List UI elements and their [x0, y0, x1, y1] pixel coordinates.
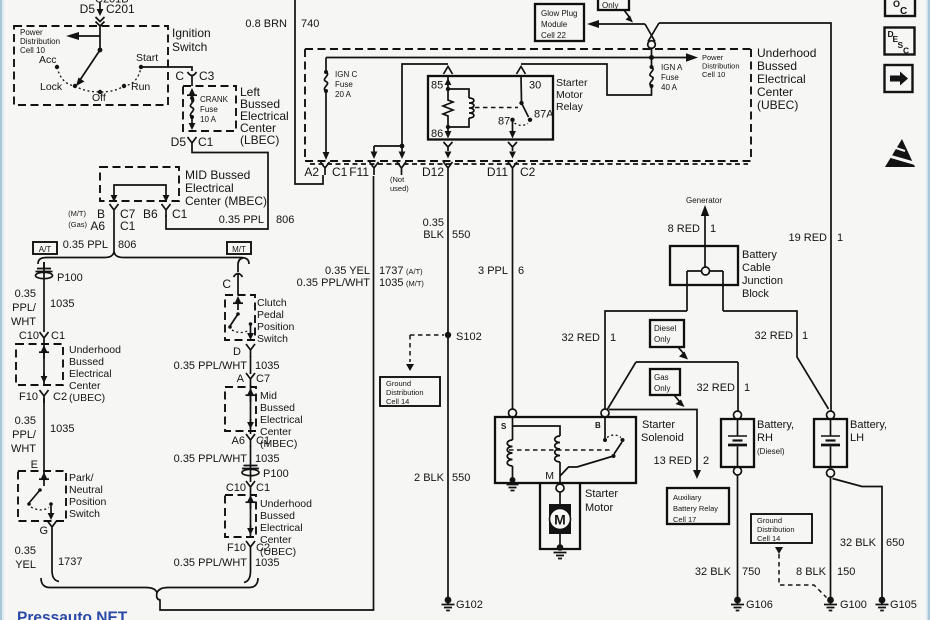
svg-text:0.35 PPL/WHT: 0.35 PPL/WHT [174, 360, 248, 372]
svg-text:Ignition: Ignition [172, 26, 211, 40]
svg-text:P100: P100 [263, 468, 289, 480]
svg-text:13 RED: 13 RED [653, 455, 692, 467]
svg-text:0.35 PPL: 0.35 PPL [219, 214, 264, 226]
svg-text:32 RED: 32 RED [696, 382, 735, 394]
svg-text:1035: 1035 [379, 277, 403, 289]
svg-text:O: O [893, 0, 900, 9]
svg-text:Pressauto NET: Pressauto NET [17, 610, 128, 620]
svg-text:0.35: 0.35 [15, 545, 36, 557]
svg-text:Battery Relay: Battery Relay [673, 504, 718, 513]
svg-text:A6: A6 [90, 219, 105, 233]
svg-text:M: M [545, 470, 554, 482]
svg-text:Starter: Starter [585, 488, 618, 500]
svg-text:S102: S102 [456, 331, 482, 343]
svg-text:1035: 1035 [255, 360, 279, 372]
svg-text:Distribution: Distribution [757, 525, 795, 534]
svg-text:A: A [237, 373, 245, 385]
svg-text:Only: Only [602, 1, 618, 10]
svg-text:D12: D12 [422, 165, 444, 179]
svg-text:B6: B6 [143, 207, 158, 221]
svg-text:0.35 PPL/WHT: 0.35 PPL/WHT [297, 277, 371, 289]
svg-text:CRANK: CRANK [200, 95, 229, 104]
svg-text:PPL/: PPL/ [12, 302, 37, 314]
svg-text:8 BLK: 8 BLK [796, 566, 827, 578]
svg-text:Electrical: Electrical [260, 522, 303, 534]
svg-text:40 A: 40 A [661, 83, 678, 92]
svg-text:C1: C1 [172, 207, 188, 221]
svg-text:G106: G106 [746, 599, 773, 611]
svg-text:F11: F11 [349, 165, 369, 179]
svg-text:C2: C2 [256, 542, 270, 554]
svg-text:Center: Center [69, 380, 101, 392]
svg-text:Relay: Relay [556, 101, 584, 113]
svg-text:32 BLK: 32 BLK [840, 537, 877, 549]
svg-text:RH: RH [757, 432, 773, 444]
svg-text:S: S [501, 422, 507, 431]
svg-text:87A: 87A [534, 109, 554, 121]
svg-text:1035: 1035 [255, 453, 279, 465]
svg-text:BLK: BLK [423, 229, 444, 241]
svg-text:0.35: 0.35 [15, 288, 36, 300]
svg-text:(UBEC): (UBEC) [757, 98, 798, 112]
svg-text:Distribution: Distribution [386, 388, 424, 397]
svg-text:Block: Block [742, 288, 769, 300]
svg-text:Park/: Park/ [69, 472, 94, 484]
svg-text:Electrical: Electrical [757, 72, 806, 86]
svg-text:1035: 1035 [50, 298, 74, 310]
svg-text:C1: C1 [256, 435, 270, 447]
svg-text:IGN A: IGN A [661, 63, 683, 72]
svg-text:(A/T): (A/T) [406, 267, 423, 276]
svg-text:6: 6 [518, 265, 524, 277]
svg-text:C1: C1 [332, 165, 348, 179]
svg-text:D5: D5 [80, 2, 96, 16]
svg-text:Cell 10: Cell 10 [702, 70, 725, 79]
svg-text:PPL/: PPL/ [12, 429, 37, 441]
svg-text:WHT: WHT [11, 316, 36, 328]
svg-text:Bussed: Bussed [260, 402, 295, 414]
svg-text:C2: C2 [53, 391, 67, 403]
svg-text:Battery,: Battery, [850, 419, 887, 431]
svg-text:IGN C: IGN C [335, 70, 357, 79]
svg-text:(LBEC): (LBEC) [240, 133, 279, 147]
svg-text:1: 1 [610, 332, 616, 344]
svg-text:20 A: 20 A [335, 90, 352, 99]
svg-text:Position: Position [257, 321, 295, 333]
svg-text:Power: Power [20, 28, 43, 37]
svg-text:3 PPL: 3 PPL [478, 265, 508, 277]
svg-text:0.8 BRN: 0.8 BRN [245, 18, 287, 30]
svg-text:0.35 PPL/WHT: 0.35 PPL/WHT [174, 453, 248, 465]
svg-text:G100: G100 [840, 599, 867, 611]
svg-text:Distribution: Distribution [20, 37, 60, 46]
svg-text:Motor: Motor [585, 502, 613, 514]
svg-text:Cable: Cable [742, 262, 771, 274]
svg-text:C1: C1 [120, 219, 136, 233]
svg-text:M: M [554, 512, 566, 528]
svg-text:Junction: Junction [742, 275, 783, 287]
svg-text:10 A: 10 A [200, 115, 217, 124]
svg-text:Starter: Starter [556, 77, 588, 89]
svg-text:A/T: A/T [39, 245, 52, 254]
svg-text:Glow Plug: Glow Plug [541, 9, 577, 18]
svg-text:C1: C1 [256, 482, 270, 494]
svg-text:0.35 YEL: 0.35 YEL [325, 265, 370, 277]
svg-text:85: 85 [431, 80, 443, 92]
svg-text:E: E [31, 459, 38, 471]
svg-text:Diesel: Diesel [654, 324, 676, 333]
svg-text:Module: Module [541, 20, 568, 29]
svg-text:Underhood: Underhood [260, 498, 312, 510]
svg-text:C3: C3 [199, 69, 215, 83]
svg-text:D5: D5 [171, 135, 187, 149]
svg-text:19 RED: 19 RED [788, 232, 827, 244]
svg-text:used): used) [390, 184, 409, 193]
svg-text:D: D [233, 346, 241, 358]
svg-text:Clutch: Clutch [257, 297, 287, 309]
svg-text:(Not: (Not [390, 175, 405, 184]
svg-text:YEL: YEL [15, 559, 36, 571]
svg-text:Only: Only [654, 384, 670, 393]
svg-text:Cell 17: Cell 17 [673, 515, 696, 524]
svg-text:D11: D11 [487, 165, 508, 179]
svg-text:1035: 1035 [255, 557, 279, 569]
svg-text:550: 550 [452, 472, 470, 484]
svg-text:Cell 22: Cell 22 [541, 31, 566, 40]
svg-text:Bussed: Bussed [69, 356, 104, 368]
svg-text:32 BLK: 32 BLK [695, 566, 732, 578]
svg-text:Battery,: Battery, [757, 419, 794, 431]
svg-text:Center: Center [757, 85, 793, 99]
svg-text:2 BLK: 2 BLK [414, 472, 445, 484]
svg-text:Battery: Battery [742, 249, 777, 261]
svg-text:Electrical: Electrical [185, 181, 234, 195]
svg-text:LH: LH [850, 432, 864, 444]
svg-text:Generator: Generator [686, 196, 722, 205]
svg-text:C: C [222, 277, 231, 291]
svg-text:8 RED: 8 RED [668, 223, 700, 235]
svg-text:P100: P100 [57, 272, 83, 284]
svg-text:G105: G105 [890, 599, 917, 611]
svg-text:Only: Only [654, 335, 670, 344]
svg-text:Motor: Motor [556, 89, 583, 101]
svg-text:Position: Position [69, 496, 107, 508]
svg-text:F10: F10 [227, 542, 246, 554]
svg-text:C1: C1 [198, 135, 214, 149]
svg-text:(Diesel): (Diesel) [757, 447, 785, 456]
svg-text:650: 650 [886, 537, 904, 549]
svg-text:Electrical: Electrical [69, 368, 112, 380]
svg-text:Lock: Lock [40, 81, 63, 93]
svg-text:(UBEC): (UBEC) [69, 392, 105, 404]
svg-text:G102: G102 [456, 599, 483, 611]
svg-text:150: 150 [837, 566, 855, 578]
svg-text:1737: 1737 [58, 556, 82, 568]
svg-text:Off: Off [92, 92, 106, 104]
svg-text:C7: C7 [256, 373, 270, 385]
svg-text:Fuse: Fuse [661, 73, 679, 82]
svg-text:Bussed: Bussed [260, 510, 295, 522]
svg-text:740: 740 [301, 18, 319, 30]
svg-text:Acc: Acc [39, 54, 57, 66]
svg-text:F10: F10 [19, 391, 38, 403]
svg-text:30: 30 [529, 80, 541, 92]
svg-text:550: 550 [452, 229, 470, 241]
svg-text:1: 1 [744, 382, 750, 394]
svg-text:Run: Run [131, 81, 150, 93]
svg-text:C2: C2 [520, 165, 536, 179]
svg-text:Center (MBEC): Center (MBEC) [185, 194, 267, 208]
svg-text:C1: C1 [51, 330, 65, 342]
svg-text:0.35 PPL: 0.35 PPL [63, 239, 108, 251]
svg-text:C10: C10 [226, 482, 246, 494]
svg-text:A6: A6 [232, 435, 245, 447]
svg-text:B: B [595, 421, 601, 430]
svg-text:Mid: Mid [260, 390, 277, 402]
svg-text:1: 1 [802, 330, 808, 342]
svg-text:Pedal: Pedal [257, 309, 284, 321]
svg-text:A2: A2 [304, 165, 319, 179]
svg-text:(M/T): (M/T) [68, 209, 86, 218]
svg-text:Fuse: Fuse [335, 80, 353, 89]
svg-text:750: 750 [742, 566, 760, 578]
svg-text:C201: C201 [106, 2, 135, 16]
svg-text:(Gas): (Gas) [68, 220, 87, 229]
svg-text:806: 806 [118, 239, 136, 251]
svg-text:C10: C10 [19, 330, 39, 342]
svg-text:WHT: WHT [11, 443, 36, 455]
svg-text:Underhood: Underhood [757, 46, 816, 60]
svg-text:1737: 1737 [379, 265, 403, 277]
svg-text:(M/T): (M/T) [406, 279, 424, 288]
svg-text:32 RED: 32 RED [561, 332, 600, 344]
svg-text:87: 87 [498, 116, 510, 128]
svg-text:M/T: M/T [232, 245, 246, 254]
svg-text:86: 86 [431, 128, 443, 140]
svg-text:C: C [903, 46, 909, 56]
svg-text:32 RED: 32 RED [754, 330, 793, 342]
svg-text:C: C [900, 6, 907, 17]
svg-text:Electrical: Electrical [260, 414, 303, 426]
svg-text:Switch: Switch [69, 508, 100, 520]
svg-text:Start: Start [136, 52, 158, 64]
svg-text:806: 806 [276, 214, 294, 226]
svg-text:Fuse: Fuse [200, 105, 218, 114]
svg-text:Switch: Switch [172, 40, 207, 54]
svg-text:C: C [175, 69, 184, 83]
svg-text:Auxiliary: Auxiliary [673, 493, 702, 502]
svg-text:Bussed: Bussed [757, 59, 797, 73]
svg-text:Cell 14: Cell 14 [757, 534, 780, 543]
svg-text:0.35: 0.35 [423, 217, 444, 229]
svg-text:Neutral: Neutral [69, 484, 103, 496]
svg-text:1: 1 [710, 223, 716, 235]
svg-text:1035: 1035 [50, 423, 74, 435]
svg-text:0.35 PPL/WHT: 0.35 PPL/WHT [174, 557, 248, 569]
svg-text:Gas: Gas [654, 373, 669, 382]
svg-text:Cell 14: Cell 14 [386, 397, 409, 406]
svg-text:Ground: Ground [386, 379, 411, 388]
svg-text:1: 1 [837, 232, 843, 244]
svg-text:Solenoid: Solenoid [641, 432, 684, 444]
svg-text:Underhood: Underhood [69, 344, 121, 356]
svg-text:2: 2 [703, 455, 709, 467]
svg-text:MID Bussed: MID Bussed [185, 168, 250, 182]
svg-text:0.35: 0.35 [15, 415, 36, 427]
svg-text:Ground: Ground [757, 516, 782, 525]
svg-text:Starter: Starter [642, 419, 675, 431]
svg-text:G: G [39, 525, 48, 537]
svg-text:Switch: Switch [257, 333, 288, 345]
